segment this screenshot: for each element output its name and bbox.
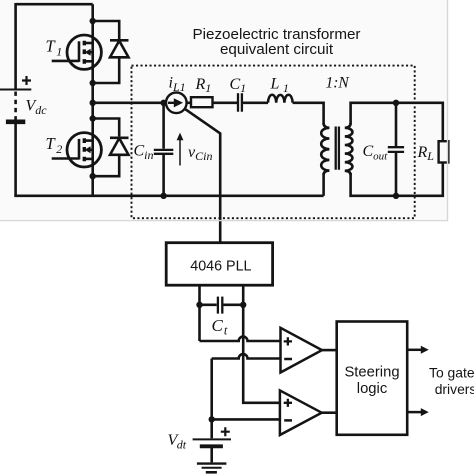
figure area tint bbox=[0, 0, 447, 220]
wire U1 output bbox=[322, 349, 337, 352]
capacitor Ct bbox=[218, 297, 222, 314]
wire C1 to L1 bbox=[243, 102, 268, 105]
wire Ct right lead bbox=[223, 303, 243, 306]
capacitor Cout bbox=[388, 147, 404, 152]
wire Vdt top lead bbox=[210, 419, 213, 438]
svg-text:Steering: Steering bbox=[344, 365, 399, 381]
wire top rail bbox=[16, 3, 93, 6]
wire PLL left pin bbox=[198, 285, 201, 341]
capacitor Cin bbox=[154, 150, 174, 154]
current source iL1 bbox=[166, 93, 187, 114]
wire diode D2 branch top bbox=[93, 119, 120, 137]
wire Ct left lead bbox=[200, 303, 217, 306]
svg-text:1:N: 1:N bbox=[326, 75, 351, 92]
wire bottom rail primary side bbox=[14, 195, 323, 198]
wire Cout lower lead bbox=[395, 153, 398, 196]
transistor T2 bbox=[52, 133, 102, 167]
block Steering logic bbox=[337, 322, 408, 435]
svg-text:drivers: drivers bbox=[435, 381, 474, 397]
arrow vCin bbox=[177, 133, 184, 166]
diode D2 bbox=[110, 138, 129, 155]
figure border bbox=[0, 0, 448, 221]
wire diode D2 branch bottom bbox=[93, 155, 120, 177]
transistor T1 bbox=[52, 35, 102, 69]
wire primary bottom lead bbox=[322, 173, 325, 196]
wire R1 to C1 bbox=[213, 102, 238, 105]
battery Vdc bbox=[0, 76, 31, 122]
inductor L1 bbox=[268, 95, 293, 103]
svg-text:4046 PLL: 4046 PLL bbox=[190, 258, 251, 274]
wire secondary top bbox=[351, 103, 443, 141]
wire R1 left lead bbox=[187, 102, 191, 105]
wire left rail upper bbox=[14, 3, 17, 89]
battery Vdt bbox=[193, 427, 231, 446]
wire diode D1 branch bottom bbox=[93, 57, 120, 83]
wire to comparator U2 minus bbox=[212, 418, 280, 421]
svg-text:logic: logic bbox=[357, 381, 388, 397]
svg-text:equivalent circuit: equivalent circuit bbox=[220, 41, 334, 58]
wire PLL right pin bbox=[243, 285, 280, 403]
transformer TR secondary winding bbox=[345, 123, 353, 175]
wire PLL input tap bbox=[184, 108, 220, 242]
capacitor C1 bbox=[238, 93, 242, 112]
wire Vdt to ground bbox=[210, 448, 213, 463]
resistor R1 bbox=[191, 97, 213, 107]
wire left rail lower bbox=[14, 123, 17, 196]
resistor RL bbox=[439, 141, 449, 162]
svg-text:To gate: To gate bbox=[429, 365, 474, 381]
wire L1 to primary bbox=[293, 103, 324, 125]
wire to comparator U1 minus with hop bbox=[212, 354, 281, 358]
wire threshold vertical bbox=[210, 359, 213, 420]
transformer TR primary winding bbox=[321, 123, 329, 175]
transformer TR core bbox=[336, 127, 339, 170]
wire Cin lower lead bbox=[162, 155, 165, 196]
wire diode D1 branch top bbox=[93, 21, 120, 39]
wire bridge center rail bbox=[91, 4, 94, 196]
diode D1 bbox=[110, 40, 129, 57]
dashed boundary PT equivalent circuit bbox=[132, 66, 415, 219]
block 4046 PLL bbox=[166, 243, 272, 286]
wire U2 output bbox=[322, 411, 337, 414]
op-amp comparator U1 bbox=[281, 328, 323, 373]
arrow gate drive top bbox=[407, 346, 429, 354]
ground bbox=[197, 464, 227, 473]
wire half-bridge output bbox=[93, 102, 167, 105]
wire to comparator U1 plus with hop bbox=[200, 337, 281, 341]
wire Cin upper lead bbox=[162, 103, 165, 149]
wire secondary bottom bbox=[351, 162, 443, 195]
arrow gate drive bottom bbox=[407, 408, 429, 416]
wire Cout upper lead bbox=[395, 103, 398, 147]
op-amp comparator U2 bbox=[280, 390, 322, 435]
